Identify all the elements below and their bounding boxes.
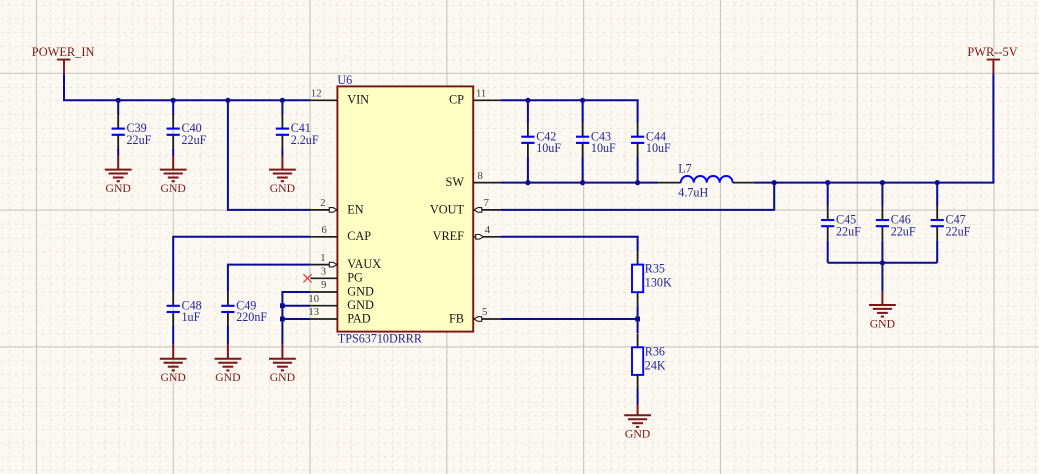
- svg-text:U6: U6: [337, 73, 352, 87]
- wire capacitor bottom: [936, 240, 938, 262]
- wire C44 bottom: [637, 157, 639, 183]
- capacitor C44: [631, 123, 671, 158]
- svg-text:24K: 24K: [645, 358, 666, 372]
- wire POWER_IN rail to VIN: [64, 73, 310, 100]
- svg-text:R36: R36: [645, 344, 665, 358]
- wire R35-R36 junction: [637, 306, 639, 334]
- pin 4 VREF: [433, 225, 501, 243]
- ground stem: [172, 345, 174, 359]
- junction node CP rail: [525, 98, 530, 103]
- svg-text:GND: GND: [270, 182, 295, 195]
- svg-text:GND: GND: [347, 284, 374, 298]
- capacitor C42: [521, 123, 561, 158]
- ground GND output: [869, 305, 896, 317]
- capacitor C46: [876, 206, 916, 241]
- svg-text:11: 11: [476, 89, 486, 100]
- wire VOUT to SW node: [501, 183, 775, 210]
- port PWR--5V: [967, 45, 1017, 73]
- capacitor C40: [167, 114, 207, 149]
- pin 10 GND: [308, 294, 374, 312]
- ground stem: [281, 156, 283, 170]
- svg-text:GND: GND: [625, 428, 650, 441]
- svg-text:VIN: VIN: [347, 93, 369, 107]
- svg-text:GND: GND: [215, 371, 240, 384]
- junction node CP rail: [580, 98, 585, 103]
- wire to capacitor top: [527, 100, 529, 122]
- svg-text:R35: R35: [645, 262, 665, 276]
- wire to capacitor top: [582, 100, 584, 122]
- svg-text:9: 9: [321, 280, 326, 291]
- svg-text:CP: CP: [449, 93, 464, 107]
- svg-text:4: 4: [485, 225, 491, 236]
- pin 13 PAD: [308, 307, 370, 325]
- pin 1 VAUX: [310, 253, 381, 271]
- svg-text:PAD: PAD: [347, 311, 371, 325]
- ground GND: [215, 359, 242, 371]
- pin 12 VIN: [310, 89, 369, 107]
- junction gnd pin 10: [280, 303, 285, 308]
- wire to capacitor top: [172, 100, 174, 114]
- wire pin 10 stub: [282, 305, 310, 307]
- pin 7 VOUT: [430, 198, 501, 216]
- svg-text:GND: GND: [161, 182, 186, 195]
- port POWER_IN: [32, 45, 95, 73]
- svg-text:10uF: 10uF: [591, 141, 616, 155]
- wire capacitor to ground: [227, 326, 229, 345]
- wire to ground: [881, 263, 883, 292]
- wire VAUX pin to C49: [228, 265, 311, 292]
- pin 3 PG: [310, 267, 363, 285]
- wire to capacitor top: [281, 100, 283, 114]
- ground stem: [227, 345, 229, 359]
- svg-text:2: 2: [320, 198, 325, 209]
- junction node VIN rail: [116, 98, 121, 103]
- wire CP rail: [501, 100, 638, 122]
- pin 8 SW: [446, 171, 501, 189]
- wire capacitor bottom: [527, 157, 529, 183]
- wire pin 13 stub: [282, 318, 310, 320]
- svg-text:FB: FB: [449, 311, 464, 325]
- svg-text:VAUX: VAUX: [347, 257, 381, 271]
- svg-text:22uF: 22uF: [946, 224, 971, 238]
- svg-text:POWER_IN: POWER_IN: [32, 45, 95, 59]
- ground stem: [637, 405, 639, 415]
- capacitor C39: [112, 114, 152, 149]
- junction node SW rail: [525, 180, 530, 185]
- svg-text:GND: GND: [161, 371, 186, 384]
- svg-text:EN: EN: [347, 202, 364, 216]
- svg-text:GND: GND: [870, 317, 895, 330]
- wire to capacitor top: [881, 183, 883, 206]
- wire to capacitor top: [936, 183, 938, 206]
- junction FB divider: [635, 317, 640, 322]
- wire R36 to ground: [637, 388, 639, 405]
- svg-text:2.2uF: 2.2uF: [291, 133, 319, 147]
- junction node SW rail: [772, 180, 777, 185]
- ground GND: [269, 170, 296, 182]
- capacitor C49: [221, 292, 267, 327]
- IC U6 TPS63710DRRR: [337, 73, 473, 346]
- svg-text:4.7uH: 4.7uH: [678, 186, 708, 200]
- ground stem: [117, 156, 119, 170]
- capacitor C43: [576, 123, 616, 158]
- ground GND: [160, 170, 187, 182]
- pin 11 CP: [449, 89, 501, 107]
- svg-text:GND: GND: [270, 371, 295, 384]
- wire capacitor to ground: [172, 149, 174, 156]
- wire CAP pin to C48: [173, 237, 310, 292]
- svg-text:L7: L7: [678, 161, 691, 175]
- junction node SW rail: [580, 180, 585, 185]
- svg-text:PG: PG: [347, 271, 363, 285]
- svg-text:SW: SW: [446, 175, 465, 189]
- svg-text:VREF: VREF: [433, 229, 465, 243]
- svg-text:22uF: 22uF: [127, 133, 152, 147]
- pin 6 CAP: [310, 225, 371, 243]
- svg-text:10uF: 10uF: [646, 141, 671, 155]
- svg-text:8: 8: [478, 171, 483, 182]
- svg-text:1: 1: [320, 253, 325, 264]
- svg-text:3: 3: [321, 267, 326, 278]
- svg-text:22uF: 22uF: [182, 133, 207, 147]
- svg-text:130K: 130K: [645, 276, 672, 290]
- svg-text:12: 12: [311, 89, 322, 100]
- svg-text:7: 7: [484, 198, 489, 209]
- svg-text:22uF: 22uF: [836, 224, 861, 238]
- capacitor C47: [931, 206, 971, 241]
- pin 5 FB: [449, 307, 501, 325]
- wire rail to EN: [228, 100, 311, 210]
- junction node -5V rail: [825, 180, 830, 185]
- no-ERC marker on pin 3 PG: [303, 274, 311, 282]
- wire VREF to R35: [501, 237, 638, 251]
- ground stem: [281, 345, 283, 359]
- ground GND: [160, 359, 187, 371]
- wire capacitor to ground: [172, 326, 174, 345]
- wire capacitor to ground: [117, 149, 119, 156]
- wire output cap ground rail: [828, 262, 938, 264]
- svg-text:10: 10: [308, 294, 319, 305]
- ground GND: [269, 359, 296, 371]
- svg-text:10uF: 10uF: [536, 141, 561, 155]
- wire capacitor bottom: [881, 240, 883, 262]
- capacitor C41: [276, 114, 319, 149]
- svg-text:CAP: CAP: [347, 229, 371, 243]
- junction node VIN rail: [225, 98, 230, 103]
- wire capacitor to ground: [281, 149, 283, 156]
- wire SW to inductor: [501, 182, 659, 184]
- junction node -5V rail: [935, 180, 940, 185]
- svg-text:13: 13: [308, 307, 319, 318]
- resistor R35: [632, 251, 672, 306]
- wire FB to divider: [501, 318, 638, 320]
- wire to capacitor top: [827, 183, 829, 206]
- ground stem: [172, 156, 174, 170]
- svg-text:22uF: 22uF: [891, 224, 916, 238]
- junction gnd pin 13: [280, 317, 285, 322]
- svg-text:1uF: 1uF: [182, 310, 201, 324]
- svg-text:PWR--5V: PWR--5V: [967, 45, 1017, 59]
- pin 2 EN: [310, 198, 363, 216]
- wire inductor to PWR--5V rail: [754, 73, 994, 182]
- svg-text:VOUT: VOUT: [430, 202, 465, 216]
- wire to capacitor top: [117, 100, 119, 114]
- junction node VIN rail: [171, 98, 176, 103]
- svg-text:GND: GND: [106, 182, 131, 195]
- svg-text:6: 6: [322, 225, 327, 236]
- svg-text:TPS63710DRRR: TPS63710DRRR: [338, 332, 423, 346]
- pin 9 GND: [310, 280, 374, 298]
- junction node -5V rail: [880, 180, 885, 185]
- resistor R36: [632, 334, 666, 389]
- capacitor C45: [821, 206, 861, 241]
- capacitor C48: [167, 292, 202, 327]
- svg-text:220nF: 220nF: [236, 310, 267, 324]
- junction node SW rail: [635, 180, 640, 185]
- ground GND divider: [624, 415, 651, 427]
- wire capacitor bottom: [827, 240, 829, 262]
- ground stem: [881, 291, 883, 305]
- junction output gnd rail: [880, 260, 885, 265]
- inductor L7: [658, 161, 754, 199]
- svg-text:5: 5: [482, 307, 487, 318]
- wire GND pins to ground: [282, 292, 310, 345]
- wire capacitor bottom: [582, 157, 584, 183]
- svg-text:GND: GND: [347, 298, 374, 312]
- ground GND: [105, 170, 132, 182]
- junction node VIN rail: [280, 98, 285, 103]
